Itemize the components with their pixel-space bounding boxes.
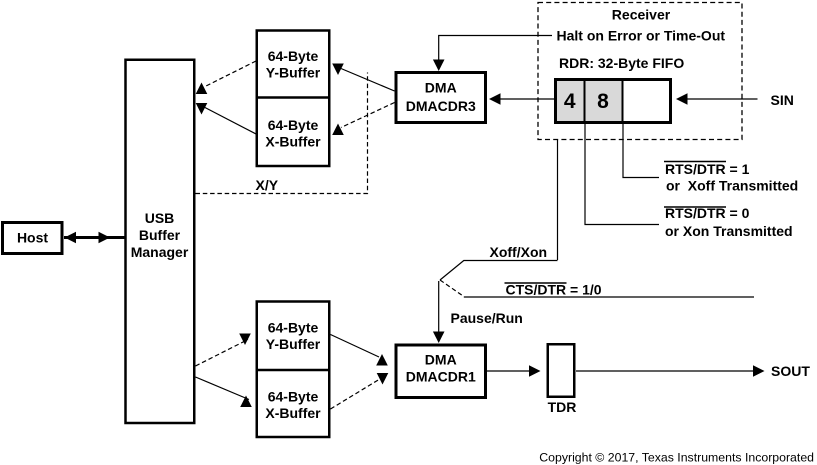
svg-text:SIN: SIN — [771, 92, 794, 108]
svg-text:Buffer: Buffer — [139, 227, 181, 243]
svg-text:Xoff/Xon: Xoff/Xon — [490, 244, 548, 260]
svg-text:4: 4 — [564, 90, 576, 113]
svg-text:8: 8 — [597, 90, 609, 113]
svg-text:DMACDR1: DMACDR1 — [406, 369, 476, 385]
svg-text:or Xon Transmitted: or Xon Transmitted — [665, 223, 793, 239]
svg-text:DMA: DMA — [425, 352, 457, 368]
svg-text:USB: USB — [145, 210, 175, 226]
svg-text:Manager: Manager — [131, 244, 189, 260]
svg-text:Y-Buffer: Y-Buffer — [266, 336, 321, 352]
svg-text:Host: Host — [17, 230, 48, 246]
svg-text:64-Byte: 64-Byte — [268, 389, 319, 405]
svg-text:Copyright © 2017, Texas Instru: Copyright © 2017, Texas Instruments Inco… — [539, 451, 814, 465]
svg-text:DMA: DMA — [425, 80, 457, 96]
svg-text:Y-Buffer: Y-Buffer — [266, 64, 321, 80]
svg-text:Pause/Run: Pause/Run — [451, 310, 523, 326]
svg-text:CTS/DTR = 1/0: CTS/DTR = 1/0 — [506, 282, 602, 298]
svg-text:64-Byte: 64-Byte — [268, 320, 319, 336]
svg-text:X-Buffer: X-Buffer — [265, 405, 321, 421]
svg-text:RDR: 32-Byte FIFO: RDR: 32-Byte FIFO — [559, 55, 684, 71]
svg-text:Receiver: Receiver — [612, 7, 671, 23]
svg-text:X-Buffer: X-Buffer — [265, 133, 321, 149]
svg-text:RTS/DTR = 1: RTS/DTR = 1 — [665, 161, 750, 177]
svg-text:DMACDR3: DMACDR3 — [406, 98, 476, 114]
svg-text:64-Byte: 64-Byte — [268, 117, 319, 133]
svg-text:RTS/DTR = 0: RTS/DTR = 0 — [665, 205, 750, 221]
svg-text:or Xoff Transmitted: or Xoff Transmitted — [666, 178, 798, 194]
svg-text:64-Byte: 64-Byte — [268, 48, 319, 64]
svg-text:X/Y: X/Y — [256, 177, 279, 193]
svg-text:TDR: TDR — [548, 399, 577, 415]
svg-text:Halt on Error or Time-Out: Halt on Error or Time-Out — [557, 28, 726, 44]
svg-text:SOUT: SOUT — [771, 363, 810, 379]
